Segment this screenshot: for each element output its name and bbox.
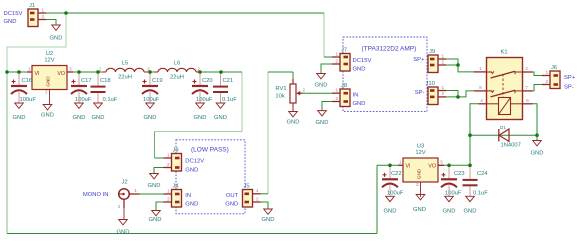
- svg-text:12V: 12V: [415, 150, 425, 156]
- svg-text:IN: IN: [353, 93, 359, 99]
- svg-text:GND: GND: [185, 202, 198, 208]
- svg-text:GND: GND: [117, 229, 130, 235]
- svg-text:J4: J4: [173, 184, 180, 190]
- svg-text:C16: C16: [22, 78, 33, 84]
- svg-text:1: 1: [546, 70, 549, 75]
- svg-text:1: 1: [442, 85, 445, 90]
- svg-text:C23: C23: [454, 171, 465, 177]
- svg-text:J1: J1: [29, 3, 35, 9]
- svg-text:GND: GND: [413, 207, 426, 213]
- svg-text:DC15V: DC15V: [4, 11, 23, 17]
- svg-text:0.1uF: 0.1uF: [103, 97, 118, 103]
- svg-text:100uF: 100uF: [387, 190, 404, 196]
- svg-text:C21: C21: [223, 78, 234, 84]
- svg-text:C22: C22: [391, 171, 402, 177]
- svg-text:SP+: SP+: [564, 75, 576, 81]
- svg-text:2: 2: [336, 58, 339, 63]
- svg-text:DC15V: DC15V: [353, 58, 372, 64]
- svg-text:C24: C24: [477, 171, 488, 177]
- svg-text:GND: GND: [148, 183, 161, 189]
- svg-text:J9: J9: [429, 49, 435, 55]
- svg-text:0.1uF: 0.1uF: [222, 97, 237, 103]
- svg-text:GND: GND: [4, 19, 17, 25]
- svg-text:3: 3: [69, 66, 72, 71]
- svg-text:4: 4: [480, 98, 483, 103]
- svg-text:GND: GND: [315, 83, 328, 89]
- svg-text:3: 3: [440, 160, 443, 165]
- svg-text:1: 1: [336, 51, 339, 56]
- svg-text:2: 2: [42, 14, 45, 19]
- svg-text:J7: J7: [341, 48, 347, 54]
- svg-text:2: 2: [442, 91, 445, 96]
- svg-text:1: 1: [336, 88, 339, 93]
- svg-text:12V: 12V: [44, 58, 54, 64]
- svg-text:VO: VO: [57, 71, 65, 77]
- svg-text:GND: GND: [50, 36, 63, 42]
- svg-text:J5: J5: [244, 184, 250, 190]
- svg-text:L6: L6: [174, 61, 180, 67]
- svg-text:GND: GND: [262, 217, 275, 223]
- svg-text:GND: GND: [225, 202, 238, 208]
- svg-text:OUT: OUT: [226, 193, 239, 199]
- svg-text:1: 1: [399, 160, 402, 165]
- svg-text:1: 1: [28, 66, 31, 71]
- svg-text:7: 7: [525, 85, 528, 90]
- svg-text:1: 1: [479, 66, 482, 71]
- svg-text:GND: GND: [41, 113, 54, 119]
- svg-text:J2: J2: [122, 180, 128, 186]
- svg-text:C19: C19: [152, 78, 163, 84]
- svg-text:SP-: SP-: [564, 84, 574, 90]
- svg-text:2: 2: [303, 88, 306, 93]
- svg-text:0.1uF: 0.1uF: [473, 190, 488, 196]
- svg-text:1N4007: 1N4007: [501, 143, 521, 149]
- svg-text:U2: U2: [46, 51, 53, 57]
- svg-text:K1: K1: [500, 50, 507, 56]
- svg-text:IN: IN: [185, 193, 191, 199]
- svg-text:SP-: SP-: [415, 90, 425, 96]
- svg-text:GND: GND: [214, 115, 227, 121]
- svg-text:GND: GND: [46, 76, 51, 87]
- svg-text:100uF: 100uF: [143, 97, 160, 103]
- svg-text:DC12V: DC12V: [185, 159, 204, 165]
- svg-text:GND: GND: [316, 120, 329, 126]
- svg-text:VO: VO: [428, 164, 436, 170]
- svg-text:(TPA3122D2 AMP): (TPA3122D2 AMP): [362, 46, 417, 53]
- svg-text:2: 2: [416, 182, 419, 187]
- svg-text:2: 2: [336, 96, 339, 101]
- svg-text:5: 5: [526, 98, 529, 103]
- svg-text:GND: GND: [92, 115, 105, 121]
- svg-text:2: 2: [442, 59, 445, 64]
- svg-text:1: 1: [134, 188, 137, 193]
- svg-text:100uF: 100uF: [75, 97, 92, 103]
- svg-text:D1: D1: [500, 125, 506, 130]
- svg-text:GND: GND: [149, 217, 162, 223]
- svg-text:GND: GND: [417, 168, 422, 179]
- svg-text:100uF: 100uF: [445, 190, 462, 196]
- svg-text:GND: GND: [464, 208, 477, 214]
- svg-text:2: 2: [167, 196, 170, 201]
- svg-text:RV1: RV1: [275, 86, 286, 92]
- svg-text:C17: C17: [81, 78, 92, 84]
- svg-text:2: 2: [197, 67, 200, 72]
- svg-text:2: 2: [45, 90, 48, 95]
- svg-text:J6: J6: [551, 65, 557, 71]
- svg-text:GND: GND: [287, 120, 300, 126]
- svg-text:22uH: 22uH: [118, 75, 132, 81]
- svg-text:1: 1: [442, 53, 445, 58]
- svg-text:J3: J3: [173, 148, 179, 154]
- svg-text:10k: 10k: [275, 94, 284, 100]
- svg-text:GND: GND: [353, 67, 366, 73]
- svg-text:100uF: 100uF: [20, 97, 37, 103]
- svg-text:GND: GND: [194, 115, 207, 121]
- svg-text:VI: VI: [406, 164, 411, 170]
- svg-text:2: 2: [546, 79, 549, 84]
- svg-text:GND: GND: [73, 115, 86, 121]
- svg-text:C20: C20: [202, 78, 213, 84]
- svg-text:GND: GND: [13, 115, 26, 121]
- svg-text:SP+: SP+: [413, 57, 425, 63]
- svg-text:100uF: 100uF: [196, 97, 213, 103]
- svg-text:2: 2: [256, 196, 259, 201]
- svg-text:J10: J10: [426, 81, 435, 87]
- svg-text:22uH: 22uH: [170, 75, 184, 81]
- svg-text:GND: GND: [531, 151, 544, 157]
- svg-text:1: 1: [256, 188, 259, 193]
- svg-text:2: 2: [118, 204, 121, 209]
- svg-text:(LOW PASS): (LOW PASS): [191, 147, 229, 154]
- svg-text:2: 2: [147, 67, 150, 72]
- svg-text:J8: J8: [341, 83, 347, 89]
- svg-text:1: 1: [99, 67, 102, 72]
- svg-text:GND: GND: [353, 101, 366, 107]
- svg-text:C18: C18: [100, 78, 111, 84]
- svg-text:L5: L5: [122, 61, 128, 67]
- svg-text:GND: GND: [384, 208, 397, 214]
- svg-text:8: 8: [479, 85, 482, 90]
- svg-text:1: 1: [42, 7, 45, 12]
- svg-text:MONO IN: MONO IN: [83, 192, 109, 198]
- svg-text:2: 2: [525, 66, 528, 71]
- svg-text:1: 1: [167, 188, 170, 193]
- svg-text:2: 2: [167, 162, 170, 167]
- svg-text:VI: VI: [35, 71, 40, 77]
- svg-text:GND: GND: [185, 168, 198, 174]
- svg-text:U3: U3: [417, 144, 424, 150]
- svg-text:1: 1: [167, 152, 170, 157]
- svg-text:GND: GND: [443, 208, 456, 214]
- svg-text:GND: GND: [144, 115, 157, 121]
